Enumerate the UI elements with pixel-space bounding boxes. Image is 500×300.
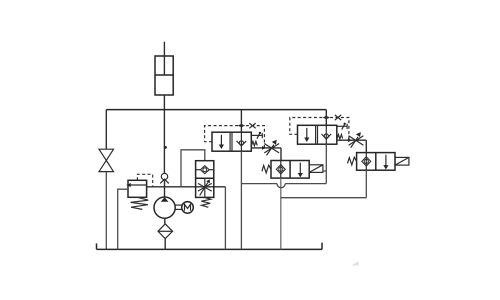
pilot valve PV2 check position: [322, 125, 332, 144]
pilot valve PV2 pilot line (dashed): [290, 118, 349, 141]
wire solenoid SV1 to group2 line: [323, 170, 326, 172]
solenoid valve SV1 spring: [262, 165, 271, 173]
wire SV2 bottom to drain line: [365, 170, 367, 198]
pilot junction diamond PV1: [238, 124, 245, 127]
cylinder C1 rod: [163, 42, 165, 75]
shut-off valve V1: [99, 149, 114, 171]
wire pump to filter: [164, 218, 166, 224]
flow control block FC1 throttle: [198, 178, 212, 197]
tank return line: [97, 243, 323, 250]
wire PV1 line to group 2 with hop: [241, 184, 326, 188]
solenoid valve SV1 flow arrow: [298, 163, 303, 178]
relief valve R1 flow arrow: [126, 183, 146, 187]
solenoid valve SV1 body: [271, 161, 309, 179]
pilot valve PV1 flow arrow: [219, 135, 224, 149]
pilot valve PV1 vent port: [251, 132, 262, 139]
cylinder C1 body: [155, 56, 173, 95]
flow control block FC1 spring: [201, 197, 210, 207]
solenoid valve SV2 body: [357, 153, 395, 171]
flow control block FC1 body: [196, 161, 214, 198]
orifice X on pilot line PV1: [249, 123, 255, 128]
solenoid valve SV2 check position: [362, 153, 371, 171]
wire bypass loop to flow control block: [181, 150, 205, 187]
relief valve R1 pilot line (dashed): [137, 174, 152, 187]
wire pilot valve PV2 feed to throttle T2: [337, 139, 367, 141]
relief valve R1 body: [128, 180, 147, 197]
watermark triangle: [351, 261, 358, 265]
wire cylinder to pump line: [163, 95, 165, 173]
wire check valve to pump: [164, 179, 166, 197]
pilot valve PV2 vent port: [337, 123, 347, 130]
pilot valve PV1 pilot line (dashed): [205, 126, 265, 148]
wire bus corner to pilot valve PV2: [325, 110, 327, 126]
solenoid valve SV1 check position: [276, 161, 285, 179]
check valve CV1 above pump: [160, 173, 169, 183]
wire drain junction to SV2: [281, 197, 367, 199]
orifice X on pilot line PV2: [335, 115, 341, 120]
flow arrow on T1 feed: [262, 146, 266, 150]
wire pressure line to tank: [224, 187, 226, 250]
wire throttle T2 to solenoid valve SV2: [365, 140, 367, 152]
wire bus to pilot valve PV1: [240, 110, 242, 133]
wire shut-off valve to tank: [105, 172, 107, 250]
wire filter to tank: [164, 239, 166, 250]
pilot junction diamond PV2: [323, 116, 330, 119]
wire PV2 down to hop line: [325, 144, 327, 183]
throttle T2: [349, 132, 364, 148]
wire SV1 bottom to drain junction: [280, 178, 282, 249]
flow control block FC1 check valve: [196, 166, 214, 174]
motor M1: [182, 202, 194, 214]
pilot valve PV2 spring: [337, 135, 343, 140]
wire pump pressure line: [147, 186, 226, 188]
solenoid valve SV1 solenoid: [309, 165, 323, 173]
solenoid valve SV2 flow arrow: [383, 155, 388, 170]
pilot valve PV2 body: [298, 125, 337, 144]
pilot valve PV1 body: [212, 132, 251, 151]
filter F1: [158, 224, 173, 239]
solenoid valve SV2 solenoid: [395, 157, 409, 165]
pilot valve PV1 spring: [251, 141, 257, 145]
pump P1: [154, 197, 175, 218]
wire throttle T1 to solenoid valve SV1: [280, 148, 282, 161]
wire bus to shut-off valve: [105, 110, 107, 150]
wire PV1 to tank: [240, 151, 242, 249]
solenoid valve SV2 spring: [348, 157, 357, 165]
motor M1 shaft: [175, 205, 182, 209]
pilot valve PV1 check position: [237, 132, 247, 151]
wire relief valve outlet to tank: [118, 189, 128, 249]
node on cylinder wire: [164, 146, 167, 149]
flow arrow on T2 feed: [348, 138, 352, 142]
wire main bus: [106, 109, 326, 111]
wire pilot valve PV1 feed to throttle T1: [251, 147, 281, 149]
relief valve R1 spring: [131, 197, 149, 209]
pilot valve PV2 flow arrow: [304, 128, 309, 142]
throttle T1: [264, 140, 279, 156]
